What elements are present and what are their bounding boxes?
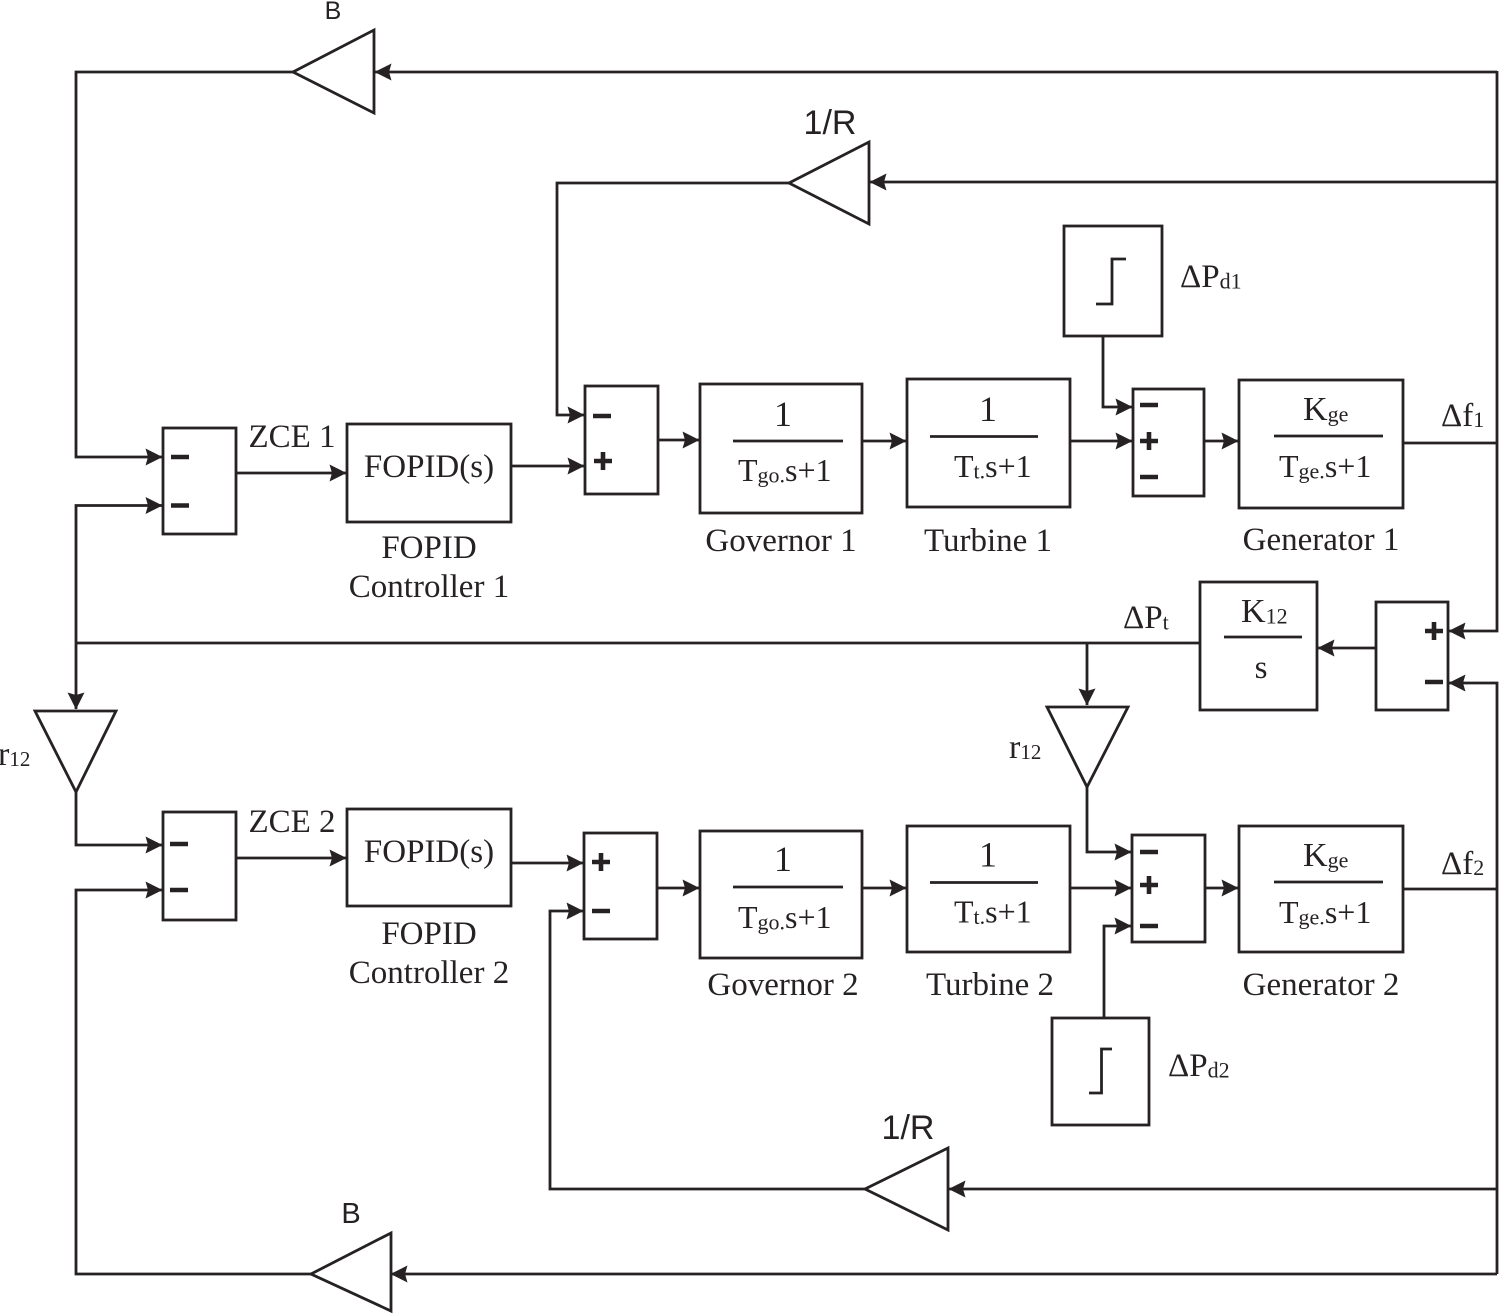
svg-text:ZCE 1: ZCE 1 xyxy=(248,419,335,455)
wire: right vertical bus (df2) up into S4 minus input xyxy=(1449,683,1497,1274)
block Generator 1 xyxy=(1239,380,1403,508)
gain 1/R triangle (top) xyxy=(789,142,869,224)
summing junction S4 (tie-line) xyxy=(1376,602,1448,710)
wire: Governor 1 to Turbine 1 xyxy=(862,440,906,443)
wire: S6 to Governor 2 xyxy=(657,887,699,890)
svg-text:Turbine 1: Turbine 1 xyxy=(924,523,1052,559)
wire: B2 output to S5 second input xyxy=(76,890,311,1274)
svg-text:Governor 1: Governor 1 xyxy=(705,523,856,559)
step symbol inside dP_d1 xyxy=(1096,259,1126,304)
wire: Turbine 1 to summing S3 xyxy=(1070,440,1132,443)
svg-text:FOPID(s): FOPID(s) xyxy=(364,834,494,870)
wire: 1/R output to S2 minus input xyxy=(557,183,789,415)
wire: S5 to FOPID controller 2 (ZCE 2) xyxy=(236,857,346,860)
wire: FOPID 2 output to summing S6 xyxy=(511,862,583,865)
summing junction S1 (area 1 ACE) xyxy=(163,428,236,534)
svg-text:r12: r12 xyxy=(0,736,30,773)
svg-text:1/R: 1/R xyxy=(882,1109,935,1147)
wire: dP_d2 to S7 lower minus input xyxy=(1104,926,1131,1018)
svg-text:Controller 1: Controller 1 xyxy=(349,569,509,605)
wire: FOPID 1 output to summing S2 xyxy=(511,465,584,468)
svg-text:FOPID: FOPID xyxy=(381,916,476,952)
svg-text:Generator 2: Generator 2 xyxy=(1243,967,1400,1003)
gain r12 triangle (left, down) xyxy=(35,711,116,792)
svg-text:ΔPd2: ΔPd2 xyxy=(1168,1048,1230,1084)
gain 1/R triangle (bottom) xyxy=(865,1148,948,1230)
step symbol inside dP_d2 xyxy=(1089,1049,1112,1093)
wire: feedback into gain B1 (top) xyxy=(375,71,1497,74)
summing junction S7 (area 2 generator input) xyxy=(1132,835,1205,942)
block FOPID controller 2 xyxy=(347,809,511,906)
wire: K12 output dP_t to left bus xyxy=(76,642,1200,645)
wire: right vertical bus (df1) down into S4 plus input xyxy=(1449,71,1497,631)
svg-text:1: 1 xyxy=(979,389,997,429)
summing junction S6 (area 2 governor input) xyxy=(584,833,657,939)
svg-text:Δf1: Δf1 xyxy=(1441,398,1484,434)
S7 minus plus minus xyxy=(1140,850,1158,855)
S5 minus signs xyxy=(170,842,188,847)
S1 minus signs xyxy=(171,455,189,460)
block Generator 2 xyxy=(1239,826,1403,952)
S4 plus and minus xyxy=(1425,622,1443,640)
wire: ACE tie-line branch to S1 second input xyxy=(76,506,162,644)
wire: Governor 2 to Turbine 2 xyxy=(862,887,906,890)
wire: S7 to Generator 2 xyxy=(1205,887,1238,890)
block K12/s tie-line xyxy=(1200,582,1317,710)
svg-text:Kge: Kge xyxy=(1303,837,1348,874)
S3 minus plus minus xyxy=(1140,403,1158,408)
svg-text:1: 1 xyxy=(979,835,997,875)
wire: r12 left output to S5 first input xyxy=(76,792,162,845)
gain B2 triangle (bottom) xyxy=(311,1233,391,1311)
svg-text:Governor 2: Governor 2 xyxy=(707,967,858,1003)
wire: feedback into gain B2 (bottom) xyxy=(391,1273,1497,1276)
wire: S2 to Governor 1 xyxy=(658,439,699,442)
block step load disturbance dP_d1 xyxy=(1064,226,1162,336)
svg-text:Tge.s+1: Tge.s+1 xyxy=(1279,448,1371,484)
svg-text:1/R: 1/R xyxy=(804,104,857,142)
block Turbine 2 xyxy=(907,826,1070,952)
svg-text:r12: r12 xyxy=(1009,729,1041,766)
summing junction S5 (area 2 ACE) xyxy=(163,812,236,920)
svg-text:Generator 1: Generator 1 xyxy=(1243,522,1400,558)
svg-text:1: 1 xyxy=(774,839,792,879)
svg-text:Tge.s+1: Tge.s+1 xyxy=(1279,894,1371,930)
svg-text:B: B xyxy=(341,1198,360,1230)
wire: S1 to FOPID controller 1 (ZCE 1) xyxy=(236,472,346,475)
block Governor 1 xyxy=(700,384,862,513)
S2 minus and plus xyxy=(593,414,611,419)
svg-text:Tgo.s+1: Tgo.s+1 xyxy=(738,899,832,935)
wire: dP_t branch down into gain r12 left xyxy=(75,643,78,709)
svg-text:ΔPd1: ΔPd1 xyxy=(1180,259,1242,295)
wire: Generator 2 output df2 to right bus xyxy=(1403,888,1497,891)
svg-text:K12: K12 xyxy=(1241,593,1288,630)
svg-text:FOPID: FOPID xyxy=(381,530,476,566)
wire: Turbine 2 to summing S7 xyxy=(1070,887,1131,890)
svg-text:ΔPt: ΔPt xyxy=(1123,600,1169,636)
svg-text:Controller 2: Controller 2 xyxy=(349,955,509,991)
wire: dP_t branch down into gain r12 right xyxy=(1086,643,1089,705)
svg-text:Turbine 2: Turbine 2 xyxy=(926,967,1054,1003)
block Turbine 1 xyxy=(907,379,1070,507)
summing junction S3 (area 1 generator input) xyxy=(1133,389,1204,496)
wire: B1 output to summing S1 first input xyxy=(76,72,293,457)
svg-text:B: B xyxy=(325,0,342,25)
svg-text:Tgo.s+1: Tgo.s+1 xyxy=(738,452,832,488)
svg-text:ZCE 2: ZCE 2 xyxy=(248,804,335,840)
svg-text:Tt.s+1: Tt.s+1 xyxy=(954,448,1032,484)
wire: 1/R bottom output to S6 minus input xyxy=(550,911,865,1189)
svg-text:s: s xyxy=(1255,650,1268,686)
svg-text:1: 1 xyxy=(774,394,792,434)
wire: r12 right output to S7 minus input xyxy=(1087,787,1131,852)
summing junction S2 (area 1 governor input) xyxy=(585,386,658,494)
block step load disturbance dP_d2 xyxy=(1052,1018,1149,1125)
wire: S3 to Generator 1 xyxy=(1204,440,1238,443)
svg-text:Tt.s+1: Tt.s+1 xyxy=(954,894,1032,930)
S6 plus and minus xyxy=(592,853,610,871)
wire: feedback into gain 1/R (top) xyxy=(870,181,1497,184)
wire: dP_d1 to S3 minus input xyxy=(1103,336,1132,407)
svg-text:Δf2: Δf2 xyxy=(1441,846,1484,882)
gain B1 triangle (top) xyxy=(293,30,374,113)
wire: S4 output to K12 block xyxy=(1318,647,1376,650)
wire: Generator 1 output df1 to right bus xyxy=(1403,442,1497,445)
wire: feedback into gain 1/R (bottom) xyxy=(949,1188,1497,1191)
block Governor 2 xyxy=(700,831,862,958)
block FOPID controller 1 xyxy=(347,424,511,522)
svg-text:FOPID(s): FOPID(s) xyxy=(364,449,494,485)
gain r12 triangle (right, down) xyxy=(1047,707,1128,787)
svg-text:Kge: Kge xyxy=(1303,391,1348,428)
